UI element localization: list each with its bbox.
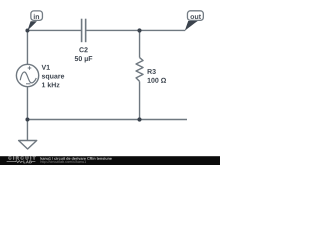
- flag in text: [34, 14, 39, 19]
- footer caption text line 1: [41, 157, 112, 160]
- wire ground lead: [26, 120, 28, 141]
- footer bar: [0, 156, 220, 165]
- capacitor C2 label: [79, 47, 87, 52]
- wire bottom horizontal: [27, 119, 187, 121]
- flag out pointer: [185, 21, 198, 31]
- resistor R3 label: [148, 69, 156, 74]
- resistor R3 value 100 Ohm: [148, 78, 167, 83]
- voltage source V1 circle: [16, 64, 38, 86]
- capacitor C2 value 50 uF: [75, 56, 93, 62]
- flag out box: [187, 11, 203, 21]
- voltage source V1 label: [42, 65, 50, 70]
- flag in pointer: [27, 21, 37, 30]
- ground: [19, 141, 37, 150]
- node C junction dot (bottom left): [25, 118, 29, 122]
- voltage source V1 plus sign: [28, 66, 32, 70]
- CircuitLab logo LAB: [24, 161, 32, 164]
- wire R3 top lead: [139, 30, 141, 57]
- wire R3 bottom lead: [139, 81, 141, 119]
- flag out text: [190, 14, 201, 19]
- node A junction dot (in node): [25, 29, 29, 33]
- voltage source V1 minus sign: [26, 83, 30, 85]
- wire left vertical lower (V1 bottom to node C): [26, 87, 28, 120]
- CircuitLab logo trailing line: [32, 161, 36, 163]
- wire top-right horizontal (C2 right plate to out flag): [86, 29, 185, 31]
- footer caption text line 2: [41, 160, 86, 163]
- resistor R3: [136, 58, 143, 82]
- wire left vertical upper (node A to V1 top): [26, 30, 28, 64]
- voltage source V1 sine wave: [20, 72, 36, 83]
- voltage source V1 frequency: [42, 82, 60, 87]
- node D junction dot (R3 bottom): [137, 117, 141, 121]
- voltage source V1 waveform type: [42, 75, 64, 80]
- wire top-left horizontal (node A to C2 left plate): [27, 29, 81, 31]
- capacitor C2: [82, 19, 86, 43]
- flag in box: [31, 11, 43, 21]
- CircuitLab logo resistor squiggle: [7, 161, 23, 163]
- CircuitLab logo wordmark CIRCUIT: [8, 156, 35, 159]
- node B junction dot (R3 top): [137, 28, 141, 32]
